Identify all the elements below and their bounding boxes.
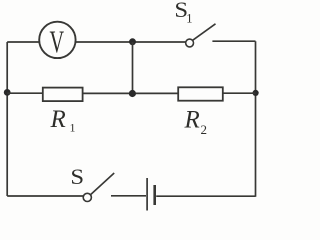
resistor R1: [43, 88, 83, 102]
switch S lever: [91, 173, 115, 195]
wire: top-left to voltmeter: [7, 41, 39, 43]
battery positive plate (long): [146, 178, 148, 211]
node: junction right middle: [253, 90, 259, 96]
svg-text:R: R: [50, 106, 66, 133]
svg-text:V: V: [50, 24, 65, 60]
voltmeter V: [39, 22, 75, 58]
wire: battery to bottom-right corner: [156, 195, 255, 197]
battery negative plate (short): [153, 185, 156, 205]
wire: middle left to R1: [7, 92, 43, 94]
wire: switch S1 to top-right corner: [212, 40, 255, 42]
switch S pivot: [83, 193, 91, 201]
svg-text:2: 2: [201, 122, 208, 137]
wire: right vertical side: [255, 41, 257, 197]
node: junction left middle: [4, 89, 11, 96]
svg-text:1: 1: [70, 121, 76, 135]
node: junction top: [129, 38, 136, 45]
wire: voltmeter to switch S1: [75, 41, 185, 43]
resistor R2: [178, 87, 223, 100]
wire: R2 to right side: [223, 92, 256, 94]
switch S1 pivot: [186, 39, 194, 47]
wire: left vertical side: [6, 42, 8, 196]
wire: R1 to R2: [83, 92, 179, 94]
svg-text:R: R: [184, 107, 200, 134]
wire: vertical connector between top and middle: [132, 42, 134, 94]
switch S1 lever: [193, 24, 216, 41]
wire: switch S to battery: [111, 195, 146, 197]
wire: bottom-left to switch S: [7, 195, 83, 197]
node: junction middle: [129, 90, 136, 97]
svg-text:1: 1: [186, 12, 192, 26]
svg-text:S: S: [70, 165, 84, 189]
